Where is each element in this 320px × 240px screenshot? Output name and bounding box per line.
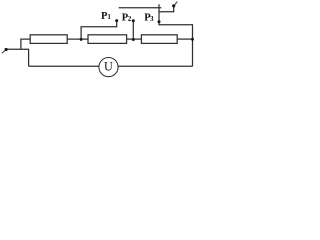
wire: riser from node b up to P2 contact [132,21,134,39]
resistor R1 [30,35,67,44]
contact dot P3 [158,20,161,23]
svg-text:1: 1 [107,13,111,21]
node a junction dot (R1-R2) [80,38,83,41]
terminal B arrow stub (top-right) [174,2,177,6]
contact dot P1 [115,19,118,22]
wire: plug stem through P3 jack down to top-right rail [159,4,193,66]
label P3 [144,12,154,23]
svg-text:3: 3 [150,15,154,23]
wire: top-right terminal lead [159,7,174,12]
source U circle [99,58,118,77]
resistor R3 [141,35,177,44]
label P1 [101,11,111,22]
wire: left chain lead from tap corner to R1 [21,39,30,49]
node c junction dot (right rail) [191,38,194,41]
label P2 [122,12,132,23]
wire: bottom rail left of source U [29,65,99,67]
node b junction dot (R2-R3) [132,38,135,41]
terminal A dot [5,48,8,51]
contact dot P2 [132,19,135,22]
wire: riser from node a up and over to P1 contact [81,21,117,39]
wire: top horizontal bar to plug stem [119,7,162,9]
wire: R1 to R2 segment [67,38,88,40]
svg-text:U: U [104,59,113,73]
terminal A arrow stub (bottom-left) [2,50,5,53]
terminal B dot [172,4,175,7]
wire: terminal A lead and down-corner to bottom rail [6,49,29,66]
svg-text:2: 2 [128,15,132,23]
wire: R3 right lead to right rail [177,38,192,40]
wire: bottom rail right of source U [118,65,192,67]
wire: R2 to R3 segment [127,38,142,40]
resistor R2 [88,35,127,44]
